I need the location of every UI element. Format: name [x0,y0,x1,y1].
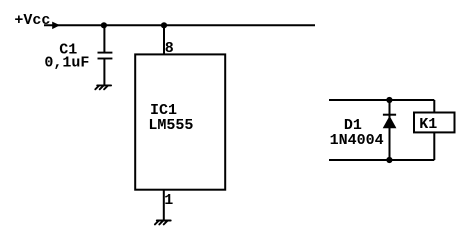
capacitor C1 plates [98,53,113,59]
junction dot Vcc/pin8 [161,22,167,28]
junction dot diode top [386,97,392,103]
wire relay bottom [329,159,434,161]
junction dot Vcc/C1 [101,22,107,28]
wire relay top [329,99,434,101]
wire pin 1 [163,190,165,221]
arrowhead on Vcc rail [52,22,60,30]
wire C1 top lead [103,25,105,52]
wire C1 bottom lead [103,59,105,86]
ground symbol below pin 1 [155,221,171,225]
wire K1 top lead [433,100,435,113]
svg-text:1N4004: 1N4004 [330,132,384,149]
svg-text:LM555: LM555 [148,117,193,134]
relay K1 box [414,113,455,133]
wire pin 8 [163,25,165,54]
svg-text:0,1uF: 0,1uF [44,55,89,72]
ground symbol below C1 [95,85,111,89]
diode D1 cathode bar [383,114,396,116]
wire diode branch [389,100,391,160]
svg-text:1: 1 [164,192,173,209]
diode D1 triangle [383,116,397,128]
junction dot diode bottom [386,157,392,163]
wire Vcc rail [44,24,315,26]
wire K1 bottom lead [433,132,435,160]
IC IC1 LM555 body [135,54,225,189]
svg-text:8: 8 [165,40,174,57]
svg-text:K1: K1 [419,116,437,133]
svg-text:+Vcc: +Vcc [14,12,50,29]
